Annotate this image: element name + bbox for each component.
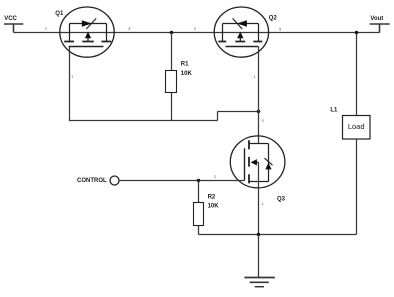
- wire gate net horizontal: [69, 120, 218, 122]
- svg-text:CONTROL: CONTROL: [77, 178, 107, 184]
- resistor R1: [166, 71, 177, 93]
- wire bottom rail: [199, 234, 357, 236]
- junction gate net: [257, 110, 260, 113]
- wire R1 top: [171, 33, 173, 71]
- svg-text:R1: R1: [181, 61, 189, 67]
- svg-text:L1: L1: [330, 108, 338, 114]
- wire gate net upper: [218, 111, 259, 113]
- svg-text:10K: 10K: [208, 204, 220, 210]
- resistor R2: [194, 203, 204, 226]
- wire Q2 gate to Q3 drain: [258, 47, 260, 144]
- svg-text:1: 1: [254, 74, 257, 79]
- wire Q3 source down: [258, 162, 260, 234]
- svg-text:Q1: Q1: [55, 11, 64, 17]
- transistor Q1 (P-MOSFET): [60, 7, 114, 57]
- junction rail/R1: [170, 31, 173, 34]
- CONTROL terminal: [110, 176, 119, 185]
- svg-text:Q3: Q3: [277, 196, 286, 202]
- wire control: [119, 180, 245, 182]
- svg-text:Load: Load: [348, 122, 365, 131]
- svg-text:3: 3: [262, 118, 265, 123]
- svg-text:Q2: Q2: [269, 15, 278, 21]
- transistor Q3 (N-MOSFET vertical): [230, 136, 285, 188]
- junction control/R2: [197, 179, 200, 182]
- svg-text:2: 2: [214, 174, 217, 179]
- wire top rail: [14, 32, 380, 34]
- wire R1 bottom: [171, 93, 173, 121]
- load L1: [343, 116, 371, 140]
- wire load bottom: [356, 140, 358, 235]
- wire ground drop: [258, 235, 260, 278]
- svg-text:5: 5: [279, 27, 282, 32]
- wire gate net step: [217, 112, 219, 121]
- svg-text:3: 3: [128, 26, 131, 31]
- junction ground: [257, 233, 260, 236]
- wire Q1 gate down: [69, 47, 71, 121]
- transistor Q2 (P-MOSFET mirrored): [214, 7, 268, 57]
- svg-text:10K: 10K: [181, 71, 193, 77]
- svg-text:1: 1: [71, 73, 74, 78]
- svg-text:2: 2: [194, 26, 197, 31]
- ground: [244, 277, 275, 279]
- wire R2 top: [198, 181, 200, 203]
- wire R2 bottom: [198, 226, 200, 235]
- svg-text:1: 1: [262, 201, 265, 206]
- junction rail/load: [355, 31, 358, 34]
- VCC terminal: [4, 24, 23, 33]
- svg-text:Vout: Vout: [370, 16, 383, 22]
- wire load top: [356, 33, 358, 116]
- svg-text:R2: R2: [208, 195, 216, 201]
- Vout terminal: [370, 24, 390, 33]
- svg-text:2: 2: [45, 26, 48, 31]
- svg-text:VCC: VCC: [4, 16, 17, 22]
